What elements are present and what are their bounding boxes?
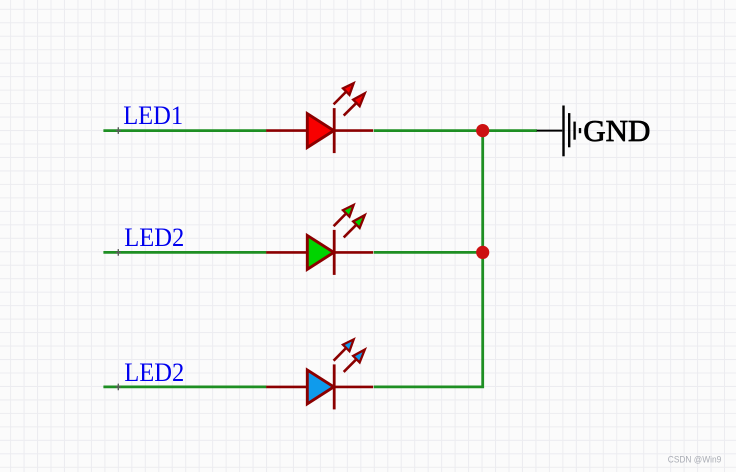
svg-text:CSDN @Win9: CSDN @Win9 xyxy=(668,454,722,465)
svg-text:LED1: LED1 xyxy=(123,101,183,130)
svg-text:GND: GND xyxy=(583,113,650,148)
svg-text:LED2: LED2 xyxy=(124,358,184,387)
svg-text:LED2: LED2 xyxy=(124,223,184,252)
